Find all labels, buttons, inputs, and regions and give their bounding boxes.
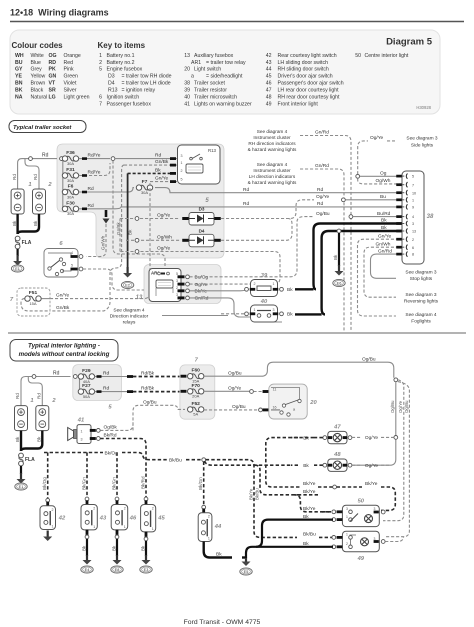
svg-text:3: 3: [176, 279, 178, 283]
svg-text:relays: relays: [123, 320, 136, 326]
svg-text:See diagram 3: See diagram 3: [406, 136, 438, 142]
passenger fusebox panel 7: [180, 365, 215, 419]
svg-text:Bk: Bk: [111, 545, 116, 551]
svg-text:Og/Wh: Og/Wh: [376, 178, 391, 184]
svg-text:Rd: Rd: [103, 386, 109, 392]
svg-text:Ford Transit - OWM 4775: Ford Transit - OWM 4775: [184, 619, 261, 626]
label Bu: [380, 194, 386, 200]
fusebox feed bus: [62, 159, 64, 209]
label Rd battery2 riser: [33, 174, 38, 180]
svg-text:R13: R13: [108, 88, 118, 94]
label Rd F30: [88, 203, 94, 209]
wire Gn/Ye to relay: [150, 181, 177, 183]
bar relay pin1: [170, 164, 176, 167]
door switch 43: [81, 505, 97, 530]
light 50 contacts: [349, 510, 353, 514]
label Rd riser1 lower: [15, 393, 20, 399]
node lamp 48 right: [348, 463, 352, 467]
svg-text:47: 47: [333, 424, 341, 430]
ignition pin4: [71, 255, 78, 258]
wire Gn/Bk vertical: [50, 165, 124, 311]
svg-text:E8: E8: [115, 568, 120, 572]
svg-text:Og/Bk: Og/Bk: [104, 425, 118, 431]
switch bottom node: [144, 537, 148, 541]
svg-text:2: 2: [93, 507, 95, 511]
diode D4 symbol: [189, 236, 214, 244]
svg-text:Typical interior lighting -: Typical interior lighting -: [28, 343, 100, 350]
label 41: [77, 418, 84, 424]
label Bk riser2: [33, 220, 38, 226]
wire F51 Gn/Bk: [21, 299, 50, 311]
lamp 48: [333, 461, 341, 469]
node trunk 44: [202, 458, 206, 462]
label Bk/Rd: [104, 433, 117, 439]
svg-text:Og/Bu: Og/Bu: [362, 356, 376, 362]
svg-text:Bk: Bk: [15, 436, 20, 442]
svg-text:Bk: Bk: [216, 552, 222, 558]
svg-text:7: 7: [412, 183, 414, 187]
engine fusebox panel lower: [73, 365, 122, 401]
svg-text:VT: VT: [49, 81, 56, 87]
svg-text:1: 1: [124, 525, 126, 529]
wire Og/Wh to socket: [358, 178, 404, 184]
AR1 pin number 3: [176, 293, 178, 297]
svg-text:PK: PK: [49, 67, 56, 73]
bar D3 right: [214, 217, 221, 220]
wire Bk to E6: [338, 233, 340, 266]
svg-text:Bk: Bk: [37, 436, 42, 442]
svg-text:16: 16: [273, 405, 277, 409]
wire F31 Rd/Ye: [79, 163, 110, 176]
label Bk below switch: [111, 545, 116, 551]
node 40 right: [280, 312, 284, 316]
earth arrow E1 lower: [20, 473, 22, 479]
label 2 lower: [51, 398, 56, 404]
svg-text:Black: Black: [31, 88, 44, 94]
wire lamp47 Og/Ye right: [352, 436, 394, 438]
wire AR1 Gn/Rd out: [190, 298, 283, 322]
bar light50 in1: [337, 510, 343, 513]
wire Og/Ye side lights riser: [358, 141, 368, 174]
svg-text:Gn/Ye: Gn/Ye: [155, 176, 168, 182]
switch bottom node: [85, 535, 89, 539]
label 40: [260, 299, 268, 305]
label Rd: [42, 153, 49, 159]
svg-text:Typical trailer socket: Typical trailer socket: [13, 125, 72, 131]
svg-text:30A: 30A: [67, 194, 74, 199]
see diagram 4 direction indicator relays: [110, 308, 149, 326]
svg-text:R13: R13: [208, 148, 217, 153]
svg-text:Brown: Brown: [31, 81, 46, 87]
label 48: [333, 452, 341, 458]
socket bar: [396, 191, 402, 194]
fusebox 7 box: [17, 288, 50, 316]
label Bk 40: [287, 312, 293, 318]
svg-text:Battery no.2: Battery no.2: [107, 60, 135, 66]
fusebox input node: [60, 157, 64, 161]
label Og/Ye lamp48: [365, 463, 378, 469]
svg-text:Gn/Rd: Gn/Rd: [315, 130, 329, 136]
wire Og/Bu column: [395, 382, 397, 436]
wire F6 to F7: [79, 188, 134, 192]
svg-text:5A: 5A: [193, 412, 198, 417]
earth E1 lower: [15, 483, 27, 490]
label Og/Bk: [104, 425, 118, 431]
svg-text:= trailer tow relay: = trailer tow relay: [206, 60, 246, 66]
label D3: [199, 207, 205, 212]
label Bk/Ye row1r: [365, 481, 378, 487]
light 49 box: [342, 531, 379, 552]
svg-text:White: White: [31, 53, 44, 59]
node Rd/Ye junction: [111, 157, 115, 161]
wire Gn/Wh down to ignition switch: [86, 224, 106, 257]
svg-text:38: 38: [427, 214, 434, 220]
bar F30 out: [82, 208, 87, 211]
earth arrow E1: [17, 255, 19, 261]
label 47: [333, 424, 341, 430]
svg-text:See diagram 4: See diagram 4: [405, 312, 437, 318]
wire battery2 positive lower: [28, 377, 42, 406]
node fusebox input lower: [73, 375, 77, 379]
svg-text:1: 1: [30, 398, 33, 404]
light 50 box: [342, 505, 379, 526]
svg-text:3: 3: [374, 507, 376, 511]
section label: Typical trailer socket: [9, 121, 86, 133]
label Rd F27: [103, 386, 109, 392]
svg-text:Direction indicator: Direction indicator: [110, 314, 149, 320]
AR1 pin number 3: [176, 279, 178, 283]
svg-text:Bk/Og: Bk/Og: [105, 450, 119, 456]
label Rd lower: [53, 371, 60, 377]
svg-text:Trailer resistor: Trailer resistor: [194, 88, 227, 94]
svg-text:Trailer socket: Trailer socket: [194, 81, 225, 87]
svg-text:RH rear door courtesy light: RH rear door courtesy light: [278, 95, 341, 101]
svg-text:Og/Ye: Og/Ye: [370, 135, 383, 141]
svg-text:LG: LG: [49, 95, 56, 101]
svg-text:2: 2: [176, 286, 178, 290]
wire side lights dash: [387, 140, 395, 142]
svg-text:3: 3: [346, 507, 348, 511]
wire lamp47 Bk left: [291, 437, 323, 439]
svg-text:47: 47: [266, 88, 272, 94]
label Bk/Ye trunk rot: [249, 488, 254, 500]
svg-text:LH direction indicators: LH direction indicators: [249, 174, 296, 179]
label Gn/Wh socket: [376, 241, 391, 247]
svg-text:2: 2: [124, 507, 126, 511]
bar light49 in1: [337, 536, 343, 539]
svg-text:Og/Ye: Og/Ye: [398, 400, 403, 413]
svg-text:Rd/Bk: Rd/Bk: [141, 386, 155, 392]
svg-text:1: 1: [152, 527, 154, 531]
svg-text:3: 3: [181, 154, 183, 158]
wire Og/Bu into F52: [133, 405, 185, 430]
svg-text:30A: 30A: [67, 161, 74, 166]
ignition pin4 label: [71, 251, 73, 255]
svg-text:Rd: Rd: [317, 187, 323, 193]
bar relay pin5: [170, 180, 176, 183]
note instrument cluster RH: [248, 129, 297, 152]
svg-text:Gn/Rd: Gn/Rd: [315, 163, 329, 169]
svg-text:Rd/Ye: Rd/Ye: [88, 153, 101, 159]
earth arrow E5: [245, 558, 247, 562]
svg-text:1: 1: [273, 282, 275, 286]
svg-text:45: 45: [157, 516, 165, 522]
wire ignition pin5 to AR1 panel: [83, 269, 144, 290]
svg-text:Light switch: Light switch: [194, 67, 221, 73]
fuse FLA lower: [19, 453, 36, 466]
wire lamp48 Bk left: [291, 464, 323, 466]
wire 39 to Bk riser: [295, 288, 314, 290]
svg-text:2: 2: [52, 508, 54, 512]
label Bu/Og: [195, 275, 209, 281]
label Gn/Bk vertical: [116, 222, 121, 235]
label Og/Ye lower row: [157, 246, 170, 252]
svg-text:& hazard warning lights: & hazard warning lights: [248, 180, 297, 185]
switch bottom bar: [145, 532, 148, 538]
svg-text:LH rear door courtesy light: LH rear door courtesy light: [278, 88, 340, 94]
svg-text:42: 42: [58, 516, 66, 522]
fusebox feed bus lower: [77, 377, 81, 392]
svg-text:13: 13: [184, 53, 190, 59]
wire riser switch43: [86, 453, 88, 499]
label 13: [136, 295, 143, 301]
wire Og to socket: [360, 175, 404, 177]
svg-text:Rd: Rd: [15, 393, 20, 399]
svg-text:Diagram 5: Diagram 5: [386, 37, 433, 48]
switch connector: [202, 505, 206, 509]
svg-text:Bu/Rd: Bu/Rd: [377, 211, 391, 217]
wire AR1 Bk/Ye out: [190, 289, 250, 291]
label Gn/Ye relay: [155, 176, 168, 182]
label Rd row1 left: [243, 187, 249, 193]
label Og/Ye F70: [228, 386, 241, 392]
light switch pins: [273, 387, 277, 409]
wire F27 out: [95, 391, 128, 393]
wire into 40: [221, 313, 245, 315]
lamp 48 bars: [328, 464, 332, 467]
svg-text:40: 40: [184, 95, 190, 101]
label Bk below switch: [140, 545, 145, 551]
label Bk lamp47: [303, 435, 309, 441]
wire battery2 negative lower: [21, 431, 42, 451]
svg-text:Bk/Ye: Bk/Ye: [303, 506, 316, 512]
node switch pin11: [250, 390, 254, 394]
earth oval: [140, 566, 152, 573]
switch bottom node: [115, 535, 119, 539]
fuse F51: [25, 290, 41, 306]
svg-text:5: 5: [71, 264, 73, 268]
node battery bus: [29, 157, 33, 161]
wire Bk/Og trunk: [44, 452, 103, 454]
svg-text:6: 6: [99, 95, 102, 101]
AR1 pin number 2: [176, 286, 178, 290]
svg-text:Engine fusebox: Engine fusebox: [107, 67, 143, 73]
svg-text:Rear courtesy light switch: Rear courtesy light switch: [278, 53, 337, 59]
stub F36: [63, 158, 65, 160]
wire AR1 Og/Ye out: [120, 252, 280, 285]
bar D3 left: [182, 217, 189, 220]
AR1 pin bar Og/Ye: [178, 283, 185, 286]
earth oval: [111, 566, 123, 573]
label Og/Bu F60: [228, 370, 242, 376]
svg-text:FLA: FLA: [22, 240, 32, 246]
svg-text:OG: OG: [49, 53, 57, 59]
label Rd row1 right: [317, 187, 323, 193]
node light49 in1: [332, 536, 336, 540]
wire to direction indicator relays: [162, 315, 228, 317]
svg-text:Bk/Rd: Bk/Rd: [104, 433, 117, 439]
label 39: [261, 273, 268, 279]
svg-text:42: 42: [266, 53, 272, 59]
label Bk/Bu light49: [303, 532, 316, 538]
wire Og/Ye rows left bus: [119, 219, 121, 252]
svg-text:Og/Bu: Og/Bu: [228, 370, 242, 376]
svg-text:Rd: Rd: [33, 174, 38, 180]
wire Bu/Rd to socket: [353, 216, 404, 218]
battery 2 lower: [36, 406, 49, 431]
svg-text:BU: BU: [15, 60, 23, 66]
svg-text:E1: E1: [15, 267, 20, 271]
switch connector: [46, 498, 50, 502]
label Rd/Ye: [88, 153, 101, 159]
label Bk 39: [287, 287, 293, 293]
wire lamp48 feed: [205, 461, 291, 465]
node buzzer pin1: [96, 429, 100, 433]
svg-text:GN: GN: [49, 74, 57, 80]
label 5 lower: [108, 405, 112, 411]
svg-text:BN: BN: [15, 81, 23, 87]
svg-text:8: 8: [412, 253, 414, 257]
svg-text:48: 48: [333, 452, 341, 458]
wire F70 Og/Ye: [204, 390, 249, 392]
wire Gn/Bk to relay: [124, 164, 177, 166]
wire battery1 positive lower: [21, 377, 71, 406]
node lamp 48 left: [323, 463, 327, 467]
svg-text:Og: Og: [380, 170, 387, 176]
wire FLA to earth: [17, 249, 19, 256]
colour codes title: [12, 41, 64, 50]
relay pin numbers: [181, 154, 183, 182]
door switch 46: [111, 505, 128, 530]
svg-text:BK: BK: [15, 88, 23, 94]
label 6: [59, 241, 63, 247]
svg-text:3: 3: [81, 438, 83, 442]
bar buzzer pin1: [90, 429, 96, 432]
svg-text:4: 4: [71, 251, 73, 255]
svg-text:Passenger's door ajar switch: Passenger's door ajar switch: [278, 81, 344, 87]
node light50 out: [381, 510, 385, 514]
switch pin bar: [46, 502, 49, 508]
AR1 pin bar Bu/Og: [178, 275, 185, 278]
svg-text:43: 43: [266, 60, 272, 66]
svg-text:See diagram 4: See diagram 4: [257, 129, 288, 134]
svg-text:Bk/Bu: Bk/Bu: [255, 488, 260, 500]
label 2: [47, 182, 52, 188]
svg-text:12•18 Wiring diagrams: 12•18 Wiring diagrams: [10, 8, 109, 18]
earth E1: [11, 265, 23, 272]
wire switch to earth: [145, 541, 147, 556]
socket bar: [396, 230, 402, 233]
svg-text:= ignition relay: = ignition relay: [122, 88, 156, 94]
label Bk/Bu trunk rot: [255, 488, 260, 500]
trailer socket box: [402, 171, 424, 264]
svg-text:E5: E5: [244, 570, 249, 574]
svg-text:Bk: Bk: [287, 287, 293, 293]
svg-text:2: 2: [254, 282, 256, 286]
label Og/Wh: [157, 234, 172, 240]
svg-text:Rd/Bk: Rd/Bk: [141, 371, 155, 377]
svg-text:Ignition switch: Ignition switch: [107, 95, 140, 101]
node Og/Wh: [135, 238, 139, 242]
svg-text:38: 38: [184, 81, 190, 87]
svg-text:F30: F30: [66, 200, 75, 206]
svg-text:1: 1: [99, 53, 102, 59]
ignition switch contacts: [48, 253, 71, 257]
svg-text:Bk/Ye: Bk/Ye: [303, 481, 316, 487]
svg-text:Driver's door ajar switch: Driver's door ajar switch: [278, 74, 333, 80]
wire Bk/Ye branch down: [255, 465, 300, 495]
lamp 47 bars: [328, 436, 332, 439]
stub F30: [63, 208, 65, 210]
branch arrow: [103, 219, 110, 224]
label R13: [208, 148, 217, 153]
socket bar: [396, 253, 402, 256]
wire D3 out: [221, 200, 314, 219]
note foglights: [405, 312, 437, 325]
svg-text:15A: 15A: [192, 379, 199, 384]
svg-text:Key to items: Key to items: [98, 41, 146, 50]
svg-text:E6: E6: [337, 282, 342, 286]
node Og: [356, 174, 360, 178]
svg-text:Bk/Rd: Bk/Rd: [140, 476, 145, 489]
bar switch pin11: [263, 390, 270, 393]
microswitch 40 contacts: [257, 314, 261, 318]
switch connector: [85, 497, 89, 501]
socket bar: [396, 215, 402, 218]
svg-text:49: 49: [357, 556, 365, 562]
bar light49 in2: [337, 545, 343, 548]
label Og/Bu F52: [232, 404, 246, 410]
wire Og/Bu column2: [386, 382, 409, 537]
wire battery1 negative: [16, 214, 18, 234]
fuse F29: [78, 368, 94, 384]
svg-text:46: 46: [129, 516, 137, 522]
light switch 20 box: [269, 384, 307, 419]
node 40 left: [245, 312, 249, 316]
svg-text:Bk: Bk: [333, 254, 338, 260]
svg-text:Reversing lights: Reversing lights: [404, 299, 439, 305]
bar relay pin3: [170, 157, 176, 160]
svg-text:2: 2: [152, 507, 154, 511]
svg-text:Rd: Rd: [37, 393, 42, 399]
wire F52 Og/Bu: [204, 409, 258, 411]
label Rd row2 right: [317, 201, 323, 207]
bar relay pin2: [170, 172, 176, 175]
socket bar: [396, 246, 402, 249]
svg-text:LH sliding door switch: LH sliding door switch: [278, 60, 329, 66]
svg-text:2: 2: [99, 60, 102, 66]
label Gn/Ye socket: [378, 233, 391, 239]
fuse F30: [62, 200, 78, 216]
label Rd/Ye F31: [88, 170, 101, 176]
node ignition pin4: [79, 255, 83, 259]
diode D4 box: [189, 234, 214, 247]
label Og/Ye mid: [316, 194, 329, 200]
buzzer 41 symbol: [68, 428, 74, 441]
svg-text:Og/Ye: Og/Ye: [157, 213, 170, 219]
bar 40 left: [250, 312, 256, 315]
label Gn/Rd RH: [315, 130, 329, 136]
